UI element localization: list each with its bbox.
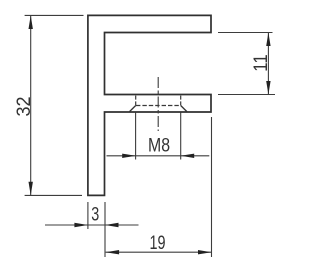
svg-text:M8: M8	[148, 134, 170, 156]
svg-text:32: 32	[13, 97, 35, 117]
svg-text:19: 19	[150, 232, 166, 254]
svg-text:3: 3	[91, 204, 99, 226]
svg-text:11: 11	[250, 54, 272, 72]
